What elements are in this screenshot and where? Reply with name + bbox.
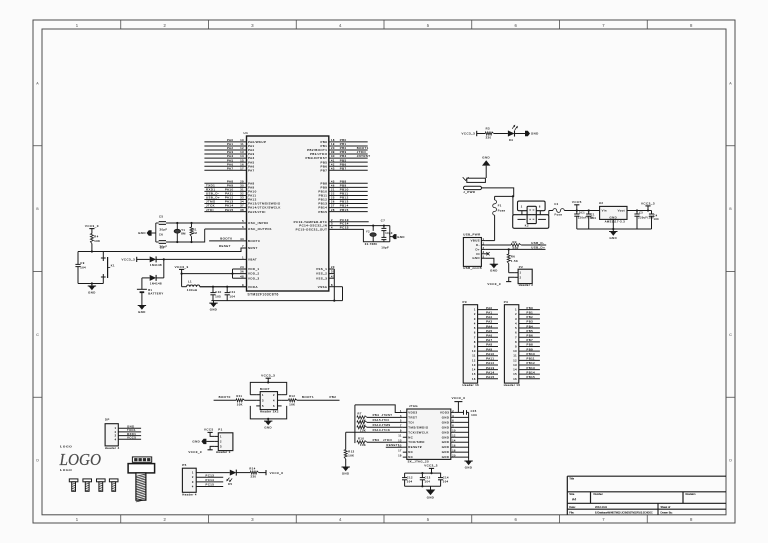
svg-text:8: 8	[474, 340, 476, 344]
wire/pin VBAT (pin 1)	[164, 256, 257, 262]
svg-text:3: 3	[115, 434, 117, 438]
resistor R6 1.5K (D+ pullup)	[507, 249, 518, 272]
wire/pin PC14 (pin 3)	[299, 222, 390, 228]
svg-text:Date:: Date:	[569, 505, 575, 509]
svg-text:JNTRST: JNTRST	[357, 154, 371, 158]
wire/pin PA10 (pin 31)	[204, 188, 256, 194]
power VCC3_3 (VDD supply)	[175, 265, 189, 287]
svg-text:GND: GND	[397, 235, 405, 239]
svg-text:PA13: PA13	[486, 366, 494, 370]
svg-text:D: D	[729, 459, 732, 463]
svg-text:A4: A4	[572, 497, 576, 501]
wire/pin PC13 (pin 2)	[294, 218, 369, 224]
svg-text:U1: U1	[244, 131, 249, 135]
svg-text:K1: K1	[111, 263, 115, 267]
svg-text:BOOT: BOOT	[260, 387, 270, 391]
wire JTDI net	[367, 418, 403, 422]
switch K1 (reset button)	[101, 252, 115, 284]
wire USB D+ / USB_D+ net	[485, 246, 545, 251]
svg-text:2: 2	[474, 312, 476, 316]
svg-text:PB12: PB12	[527, 361, 536, 365]
wire JTCK net	[346, 428, 403, 432]
svg-text:GND: GND	[138, 310, 146, 314]
svg-text:Header 3: Header 3	[216, 450, 231, 454]
wire/pin PA13 (pin 34)	[204, 200, 280, 206]
svg-text:L1: L1	[188, 279, 192, 283]
svg-text:38: 38	[240, 208, 244, 212]
wire/pin PB15 (pin 28)	[318, 208, 367, 214]
capacitor C11 104	[225, 287, 236, 301]
svg-text:29: 29	[240, 179, 244, 183]
wire/pin PA2 (pin 12)	[204, 146, 254, 152]
svg-text:12: 12	[513, 358, 517, 362]
resistor R7 10K	[357, 411, 367, 422]
svg-text:10: 10	[472, 349, 476, 353]
svg-text:GND: GND	[610, 215, 618, 219]
svg-text:14: 14	[513, 368, 517, 372]
svg-text:C15: C15	[471, 409, 477, 413]
wire/pin PA3 (pin 13)	[204, 150, 254, 156]
crystal Y2 32.768K	[365, 226, 378, 246]
resistor R9 10K	[357, 426, 367, 433]
svg-text:VCC3_3: VCC3_3	[462, 132, 476, 136]
svg-text:C10: C10	[215, 290, 221, 294]
svg-text:D+: D+	[475, 247, 480, 251]
svg-text:9: 9	[474, 345, 476, 349]
capacitor C12 104	[402, 473, 413, 486]
ground GND (power jack)	[482, 155, 490, 178]
wire/pin PB7 (pin 43)	[320, 166, 367, 172]
ground GND (decoupling bank)	[426, 486, 436, 499]
svg-text:Header 4: Header 4	[182, 492, 197, 496]
svg-text:17: 17	[398, 450, 402, 453]
svg-text:7: 7	[242, 244, 244, 248]
wire/pin OSC_IN (pin 5)	[242, 219, 268, 225]
resistor R12 10K	[289, 394, 298, 406]
svg-text:PB2: PB2	[527, 315, 534, 319]
svg-text:K2: K2	[525, 223, 529, 227]
connector BOOT (Header 3X2)	[256, 387, 281, 414]
svg-text:15: 15	[513, 372, 517, 376]
wire R11 to BOOT pin3	[245, 399, 257, 401]
sheet inner border	[42, 29, 726, 515]
svg-text:12: 12	[240, 146, 244, 150]
svg-text:Vout: Vout	[618, 208, 625, 212]
svg-text:PB9: PB9	[527, 347, 534, 351]
svg-text:3: 3	[262, 399, 264, 403]
resistor R14 330	[249, 467, 258, 479]
wire JTAG pullup rail	[354, 405, 356, 443]
wire/pin OSC_OUT (pin 6)	[242, 225, 272, 231]
svg-text:1N4148: 1N4148	[150, 263, 162, 267]
svg-text:Revision: Revision	[686, 492, 697, 496]
svg-text:Header 4: Header 4	[105, 446, 120, 450]
svg-text:Header 2: Header 2	[519, 283, 534, 287]
wire switch out	[549, 211, 553, 215]
svg-text:15: 15	[240, 158, 244, 162]
svg-text:Title: Title	[569, 476, 574, 480]
svg-text:VCC3_3: VCC3_3	[261, 374, 275, 378]
svg-text:34: 34	[240, 200, 244, 204]
svg-text:4: 4	[452, 415, 454, 418]
svg-text:5: 5	[262, 404, 264, 408]
svg-text:PA10: PA10	[486, 352, 494, 356]
svg-text:VDD_2: VDD_2	[248, 272, 260, 276]
svg-text:J_PWR: J_PWR	[463, 190, 475, 194]
op-amp U1	[244, 131, 329, 296]
svg-text:Number: Number	[594, 492, 603, 496]
svg-text:8: 8	[515, 340, 517, 344]
svg-text:GND: GND	[442, 440, 450, 444]
wire/pin PB0 (pin 18)	[320, 138, 367, 144]
wire/pin PA1 (pin 11)	[204, 142, 254, 148]
svg-text:GND: GND	[442, 430, 450, 434]
crystal Y1 8M	[174, 223, 186, 242]
svg-text:1: 1	[192, 471, 194, 475]
svg-text:VBUS: VBUS	[471, 239, 480, 243]
wire crystal common	[155, 223, 157, 242]
svg-text:E:\Datebase\MINISTM32-JCXM2\ST: E:\Datebase\MINISTM32-JCXM2\STM32F103.SC…	[595, 511, 653, 514]
svg-text:PB10: PB10	[527, 352, 536, 356]
svg-text:7: 7	[474, 335, 476, 339]
svg-text:10K: 10K	[237, 402, 243, 406]
capacitor C7 10pF	[381, 219, 393, 236]
logo large text	[59, 450, 101, 469]
wire/pin PA9 (pin 30)	[204, 183, 254, 189]
wire/pin PA5 (pin 15)	[204, 158, 254, 164]
wire VCC5 rail	[564, 209, 599, 211]
svg-text:RESET1: RESET1	[386, 443, 400, 447]
wire/pin PB2 (pin 20)	[307, 146, 369, 152]
svg-text:32: 32	[240, 192, 244, 196]
svg-text:1: 1	[521, 205, 523, 209]
svg-text:PA15/JTDI: PA15/JTDI	[248, 210, 266, 214]
svg-text:C6: C6	[159, 232, 163, 236]
svg-text:VDDA: VDDA	[248, 285, 258, 289]
wire/pin PA8 (pin 29)	[204, 179, 254, 185]
svg-text:C13: C13	[425, 475, 431, 479]
svg-text:330: 330	[486, 135, 492, 139]
wire RESET1 net	[386, 443, 403, 447]
svg-text:105: 105	[215, 295, 221, 299]
power VCC3_3 (power LED)	[462, 131, 486, 136]
wire/pin PB11 (pin 22)	[319, 192, 368, 198]
svg-text:1: 1	[220, 435, 222, 439]
svg-text:GND: GND	[442, 420, 450, 424]
svg-text:1.5K: 1.5K	[511, 259, 518, 263]
svg-text:Header 3X2: Header 3X2	[260, 410, 279, 414]
svg-text:GND: GND	[465, 465, 473, 469]
svg-text:33: 33	[240, 196, 244, 200]
svg-text:VCC5: VCC5	[127, 436, 136, 440]
svg-text:18: 18	[331, 138, 335, 142]
svg-text:14: 14	[240, 154, 244, 158]
svg-text:PA15: PA15	[486, 375, 494, 379]
svg-text:PB4: PB4	[527, 324, 534, 328]
svg-text:BOOT0: BOOT0	[248, 239, 260, 243]
svg-text:VCC5: VCC5	[204, 427, 214, 431]
svg-text:PB6: PB6	[527, 333, 534, 337]
wire JTAG ground rail	[455, 412, 469, 459]
wire/pin PB3 (pin 39)	[310, 150, 368, 156]
svg-text:NRST: NRST	[248, 246, 258, 250]
svg-text:JTDO: JTDO	[383, 438, 392, 442]
svg-text:23: 23	[331, 265, 335, 269]
svg-text:PA14: PA14	[373, 428, 381, 432]
svg-text:PB3: PB3	[527, 320, 534, 324]
wire P5 pin2 PC13	[196, 473, 223, 477]
capacitor C15 104	[464, 409, 478, 417]
svg-text:PC15: PC15	[206, 483, 215, 487]
svg-text:OSC_OUTPD1: OSC_OUTPD1	[248, 227, 272, 231]
svg-text:104: 104	[471, 413, 477, 417]
capacitor C3 220uF/10V	[634, 211, 654, 230]
svg-text:U2: U2	[599, 201, 604, 205]
svg-text:RESET#: RESET#	[408, 445, 422, 449]
svg-text:10: 10	[240, 138, 244, 142]
connector P5 (Header 4)	[182, 463, 197, 496]
LED D5	[226, 470, 236, 486]
wire LED anode	[494, 133, 508, 135]
wire battery to D3	[142, 278, 150, 289]
svg-text:TRST: TRST	[408, 415, 417, 419]
svg-text:PA7: PA7	[227, 166, 234, 170]
svg-text:26: 26	[331, 200, 335, 204]
wire LED cathode	[515, 133, 526, 135]
power VCC3_3 (VBAT diode)	[122, 257, 150, 262]
svg-text:14: 14	[472, 368, 476, 372]
svg-text:4: 4	[192, 485, 194, 489]
svg-text:11: 11	[398, 435, 402, 438]
svg-text:BOOT1: BOOT1	[302, 395, 314, 399]
svg-text:31: 31	[240, 188, 244, 192]
screw (small mounting screw 1)	[69, 479, 78, 491]
svg-text:GND: GND	[342, 471, 350, 475]
wire/pin PA15 (pin 38)	[204, 208, 265, 214]
wire jack power out	[482, 188, 514, 197]
wire OSC_OUT to pin	[205, 228, 247, 230]
svg-text:GND: GND	[610, 236, 618, 240]
svg-text:R7: R7	[358, 411, 362, 415]
svg-text:27: 27	[331, 204, 335, 208]
svg-text:11: 11	[240, 142, 244, 146]
svg-text:1: 1	[115, 426, 117, 430]
resistor R1 1M	[190, 223, 198, 242]
svg-text:PA8: PA8	[486, 343, 492, 347]
svg-text:JTRST: JTRST	[382, 413, 393, 417]
svg-text:Header 16: Header 16	[463, 383, 480, 387]
svg-text:C14: C14	[443, 475, 449, 479]
svg-text:P5: P5	[182, 463, 186, 467]
svg-text:BATTERY: BATTERY	[148, 292, 163, 296]
svg-text:C: C	[729, 333, 732, 337]
battery B1 BATTERY	[137, 288, 164, 296]
svg-text:R2: R2	[513, 240, 517, 244]
wire VBUS to fuse	[485, 240, 494, 242]
svg-text:6: 6	[474, 331, 476, 335]
svg-text:3: 3	[331, 222, 333, 226]
svg-text:JTMS: JTMS	[382, 423, 391, 427]
svg-text:VCC3_3: VCC3_3	[175, 265, 189, 269]
svg-text:LOGO: LOGO	[60, 445, 72, 449]
power VCC3_3 (BOOT)	[261, 374, 275, 383]
svg-text:36: 36	[240, 270, 244, 274]
svg-text:P1: P1	[218, 427, 222, 431]
op-amp U2 (AMS1117-3.3 regulator)	[599, 201, 627, 223]
connector P4 (Header 16)	[504, 300, 540, 387]
svg-text:Vin: Vin	[602, 208, 607, 212]
wire USB D-	[485, 244, 511, 246]
svg-text:19: 19	[398, 455, 402, 458]
connector P2 (Header 2)	[514, 265, 533, 287]
svg-text:7: 7	[515, 335, 517, 339]
svg-text:F1: F1	[498, 204, 502, 208]
port GND (P1)	[192, 439, 214, 444]
inductor L1 100uH	[182, 279, 200, 292]
wire P5 pin3 PC14	[196, 478, 223, 482]
svg-text:D-: D-	[476, 243, 480, 247]
svg-text:104: 104	[654, 218, 660, 221]
wire JTDO net	[367, 438, 403, 442]
svg-text:VDD_1: VDD_1	[248, 267, 260, 271]
svg-text:3: 3	[220, 445, 222, 449]
svg-text:104: 104	[443, 479, 449, 483]
svg-text:R3: R3	[486, 126, 490, 130]
svg-text:DP: DP	[105, 418, 110, 422]
svg-text:GND: GND	[442, 450, 450, 454]
wire VSS bus	[333, 269, 335, 301]
svg-text:RESET: RESET	[219, 244, 231, 248]
svg-text:100uH: 100uH	[187, 288, 198, 292]
wire feed to switch	[512, 195, 514, 214]
svg-text:Fuse: Fuse	[555, 212, 563, 216]
svg-text:28: 28	[331, 208, 335, 212]
svg-text:30pF: 30pF	[160, 227, 168, 231]
svg-text:20: 20	[331, 146, 335, 150]
capacitor C8 10pF	[381, 235, 389, 249]
svg-text:GND: GND	[482, 155, 490, 159]
svg-text:PA4: PA4	[486, 324, 492, 328]
svg-text:10pF: 10pF	[381, 245, 389, 249]
svg-text:1N4148: 1N4148	[150, 282, 162, 286]
svg-text:1: 1	[515, 308, 517, 312]
svg-text:PB7: PB7	[527, 338, 534, 342]
svg-text:USB_D-: USB_D-	[531, 241, 544, 245]
svg-text:BOOT0: BOOT0	[220, 237, 232, 241]
svg-text:PB14: PB14	[527, 370, 536, 374]
connector DP (Header 4)	[105, 418, 141, 450]
svg-text:25: 25	[331, 196, 335, 200]
svg-text:PB0: PB0	[527, 306, 534, 310]
svg-text:ID: ID	[476, 252, 480, 256]
svg-text:104: 104	[80, 266, 86, 270]
svg-text:22: 22	[331, 192, 335, 196]
port GND (32k crystal)	[390, 234, 405, 239]
svg-text:TDI: TDI	[408, 420, 414, 424]
wire JTAG VDD rail	[355, 405, 403, 413]
svg-text:10K: 10K	[348, 454, 354, 458]
svg-text:13: 13	[240, 150, 244, 154]
svg-text:VCC3_3: VCC3_3	[270, 471, 284, 475]
svg-text:3: 3	[474, 317, 476, 321]
svg-text:GND: GND	[531, 132, 539, 136]
svg-text:11: 11	[472, 354, 476, 358]
wire/pin PB6 (pin 42)	[320, 162, 367, 168]
capacitor C10 105	[210, 287, 221, 301]
svg-text:D5: D5	[228, 482, 232, 486]
svg-text:8M: 8M	[181, 231, 186, 235]
svg-text:GND: GND	[138, 231, 146, 235]
svg-text:32.768K: 32.768K	[365, 242, 378, 246]
svg-text:VCC3_3: VCC3_3	[122, 258, 136, 262]
wire/pin NRST (pin 7)	[78, 244, 258, 252]
resistor R8 10K	[357, 421, 367, 428]
resistor R4 10K	[90, 234, 100, 252]
power VCC3_3 (regulator out)	[641, 201, 655, 210]
svg-text:R13: R13	[348, 449, 354, 453]
wire/pin PA11 (pin 32)	[204, 192, 256, 198]
svg-text:File:: File:	[569, 510, 574, 514]
svg-text:13: 13	[513, 363, 517, 367]
wire U2 output rail	[627, 209, 652, 211]
svg-text:GND: GND	[264, 426, 272, 430]
svg-text:10K: 10K	[289, 402, 295, 406]
connector USB_PWR (USB mini)	[463, 233, 485, 270]
svg-text:2: 2	[273, 393, 275, 397]
svg-text:OSC_INPD0: OSC_INPD0	[248, 221, 268, 225]
svg-text:330: 330	[251, 474, 257, 478]
svg-text:PB4: PB4	[373, 413, 380, 417]
wire ground rail under U1	[211, 300, 342, 302]
wire/pin PB14 (pin 27)	[318, 204, 367, 210]
svg-text:4: 4	[474, 321, 476, 325]
wire P2 pin2 to VCC3_3	[487, 277, 514, 286]
svg-text:2012-10-9: 2012-10-9	[595, 505, 607, 509]
svg-text:17: 17	[240, 166, 244, 170]
capacitor C13 104	[420, 473, 431, 486]
wire R14 to VCC3_3	[259, 470, 284, 475]
svg-text:TCK/SWCLK: TCK/SWCLK	[408, 430, 428, 434]
svg-text:Sheet of: Sheet of	[661, 505, 671, 509]
svg-text:104: 104	[425, 479, 431, 483]
svg-text:VSS_2: VSS_2	[316, 272, 327, 276]
logo small text top	[60, 445, 72, 449]
svg-text:10: 10	[513, 349, 517, 353]
svg-text:R10: R10	[358, 436, 364, 440]
svg-text:PA15: PA15	[373, 418, 381, 422]
svg-text:R12: R12	[289, 394, 295, 398]
wire VDDA net	[200, 286, 247, 288]
svg-text:39: 39	[331, 150, 335, 154]
wire 32k right leg	[372, 225, 390, 242]
port GND (crystal)	[138, 230, 156, 235]
svg-text:Fuse: Fuse	[498, 209, 506, 213]
svg-text:PC15: PC15	[340, 226, 349, 230]
capacitor DC1 220uF/10V	[574, 211, 593, 230]
svg-text:GND: GND	[490, 269, 498, 273]
svg-text:PB15: PB15	[340, 208, 349, 212]
svg-text:13: 13	[472, 363, 476, 367]
resistor R11 10K	[236, 394, 245, 406]
ground GND (JTAG)	[464, 460, 472, 470]
wire LED to R14	[236, 472, 250, 474]
no-connect X on ID pin	[485, 252, 489, 255]
svg-text:PA15: PA15	[225, 208, 234, 212]
svg-text:VBAT: VBAT	[248, 258, 257, 262]
wire/pin PB13 (pin 26)	[318, 200, 367, 206]
connector JTAG (20 pin)	[398, 404, 456, 463]
svg-text:3: 3	[515, 317, 517, 321]
